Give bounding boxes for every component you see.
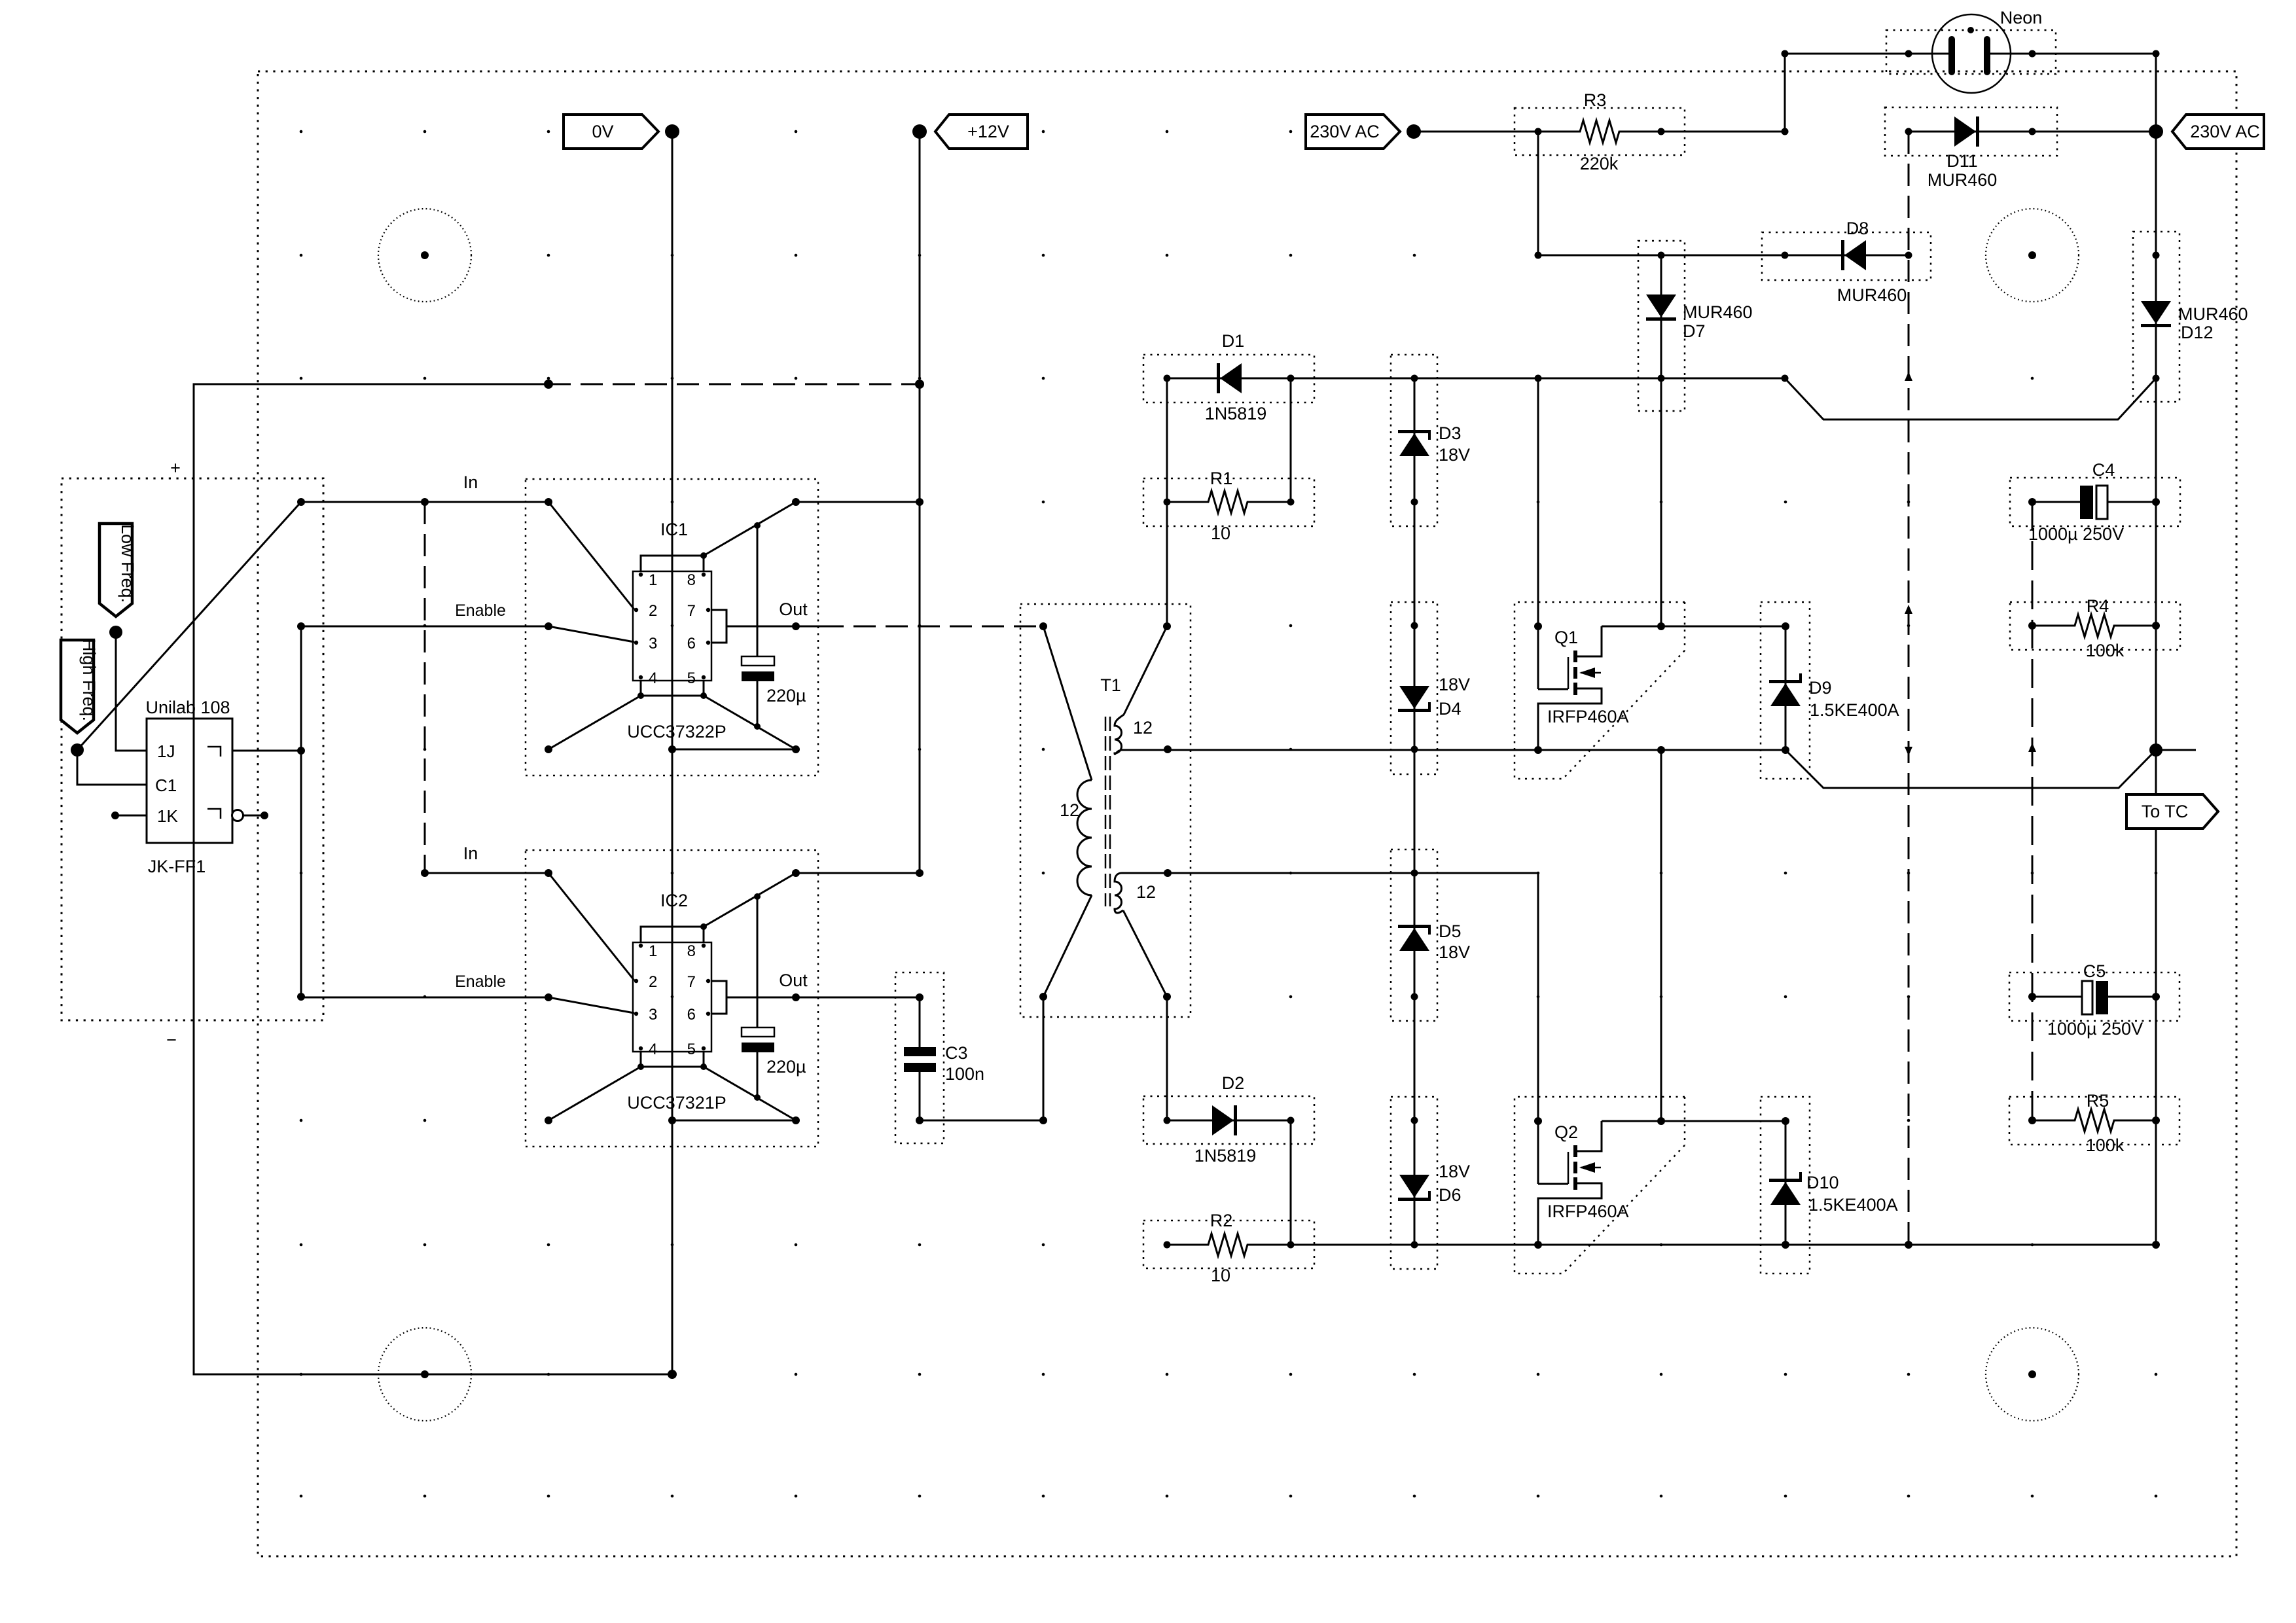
label plus [170, 458, 181, 478]
wire IC2 VDD diagonal to rail [704, 869, 800, 927]
svg-text:D2: D2 [1222, 1073, 1245, 1093]
wire T1 secA top to D1/R1 [1166, 378, 1168, 626]
svg-text:D9: D9 [1809, 678, 1832, 698]
svg-text:220µ: 220µ [766, 1057, 806, 1077]
capacitor C3 100n [895, 972, 984, 1143]
svg-text:Q1: Q1 [1554, 628, 1578, 647]
transistor Q1 IRFP460A [1538, 626, 1629, 749]
svg-text:220µ: 220µ [766, 686, 806, 705]
wire output row To TC [1785, 743, 2196, 788]
mounting hole bottom-right [1986, 1328, 2079, 1421]
T1 secondary B 12t [1115, 869, 1172, 1001]
wire down to 230VAC right [2155, 54, 2157, 132]
wire T1 secA bottom row to Q1 source [1168, 749, 1538, 751]
wire IC2 pin4 diagonal [545, 1067, 641, 1124]
svg-text:4: 4 [649, 669, 657, 687]
wire row390 [1538, 255, 1785, 257]
zener D6 18V [1391, 1097, 1470, 1269]
wire D7 anode to Q1 drain [1660, 378, 1662, 626]
wire Enable net IC2 [301, 972, 552, 1001]
transformer T1 [1020, 604, 1191, 1017]
svg-text:Enable: Enable [455, 972, 506, 991]
wire In net IC2 [425, 844, 552, 877]
wire IC1 pin5 diagonal [704, 696, 796, 749]
flag 0V [564, 115, 658, 149]
svg-text:2: 2 [649, 973, 657, 991]
svg-text:12: 12 [1060, 800, 1079, 820]
svg-text:T1: T1 [1100, 675, 1121, 695]
svg-text:2: 2 [649, 602, 657, 620]
node 0V junction [665, 124, 679, 139]
mounting hole bottom-left [378, 1328, 471, 1421]
wire jog row578 to D12 [1785, 378, 2156, 419]
svg-text:C5: C5 [2083, 961, 2106, 981]
svg-text:Neon: Neon [2000, 8, 2043, 27]
svg-text:In: In [463, 473, 478, 492]
dashed link to +12V rail [548, 380, 924, 389]
wire IC1 pin2 input diagonal [548, 502, 634, 609]
diode D12 MUR460 [2133, 232, 2248, 402]
capacitor IC1 bypass 220u [742, 526, 806, 730]
wire IC1 VDD to +12V rail [796, 498, 924, 506]
svg-text:5: 5 [687, 1041, 696, 1058]
svg-text:C4: C4 [2092, 460, 2115, 480]
svg-text:D10: D10 [1806, 1173, 1839, 1192]
svg-text:10: 10 [1211, 1266, 1230, 1285]
svg-text:UCC37321P: UCC37321P [627, 1093, 726, 1113]
svg-text:D8: D8 [1846, 219, 1869, 238]
wire D12 anode [2153, 132, 2160, 259]
wire Q2 source row start [1291, 1241, 1785, 1249]
svg-text:1N5819: 1N5819 [1205, 404, 1267, 423]
svg-text:100k: 100k [2086, 1135, 2125, 1155]
flip-flop JK-FF1 Unilab 108 [145, 698, 232, 876]
wire T1 secB bottom to D2/R2 [1166, 997, 1168, 1120]
wire High Freq to In diagonal [77, 502, 301, 750]
svg-text:1.5KE400A: 1.5KE400A [1810, 700, 1899, 720]
svg-text:Enable: Enable [455, 601, 506, 620]
dashed net D11 anode vertical [1905, 132, 1912, 1245]
node loop-dash junction [544, 380, 553, 389]
wire right column D12 to C4 [2155, 378, 2157, 502]
svg-text:100k: 100k [2086, 641, 2125, 660]
resistor R5 100k [2009, 1091, 2179, 1155]
dashed In link IC1-IC2 [421, 498, 429, 877]
wire R3 to corner c14 [1661, 128, 1789, 135]
svg-text:R2: R2 [1210, 1211, 1233, 1230]
wire Q1 drain row [1602, 622, 1789, 630]
svg-text:3: 3 [649, 635, 657, 652]
wire IC2 VDD to +12V rail [796, 869, 924, 877]
wire left return loop [194, 384, 672, 1374]
svg-text:18V: 18V [1439, 445, 1470, 465]
svg-text:D3: D3 [1439, 423, 1462, 443]
svg-text:220k: 220k [1580, 154, 1619, 173]
dotted outline Q1 [1515, 602, 1685, 779]
svg-text:IRFP460A: IRFP460A [1547, 707, 1629, 726]
svg-text:8: 8 [687, 942, 696, 960]
pin 1K inverted output [232, 810, 269, 821]
wire IC2 pin3 enable diagonal [548, 997, 634, 1013]
diode D7 MUR460 [1638, 241, 1753, 411]
wire C3 to T1 primary bottom [920, 997, 1047, 1124]
svg-text:3: 3 [649, 1006, 657, 1024]
wire IC2 pins 6+7 output bracket [711, 971, 808, 1014]
node 230V AC left junction [1407, 124, 1421, 139]
wire IC1 pin3 enable diagonal [548, 626, 634, 642]
wire T1 secB top row to Q2 gate [1168, 872, 1538, 874]
svg-text:UCC37322P: UCC37322P [627, 722, 726, 741]
wire corner up to neon row [1782, 50, 1789, 132]
svg-text:Out: Out [779, 971, 808, 990]
tvs D10 1.5KE400A [1761, 1097, 1898, 1274]
zener D4 18V [1391, 602, 1470, 774]
svg-text:18V: 18V [1439, 675, 1470, 694]
node High Freq [71, 743, 84, 757]
svg-text:C3: C3 [945, 1043, 968, 1063]
node Low Freq [109, 626, 122, 639]
zener D3 18V [1391, 355, 1470, 526]
wire Low Freq to 1J [116, 632, 147, 751]
svg-text:MUR460: MUR460 [1837, 285, 1907, 305]
wire C5 to R5 [2155, 997, 2157, 1120]
wire IC2 pin4 ground stub [637, 1052, 707, 1070]
resistor R1 10 [1143, 469, 1314, 543]
svg-text:8: 8 [687, 571, 696, 589]
diode D2 1N5819 [1143, 1073, 1314, 1166]
svg-text:12: 12 [1133, 718, 1153, 738]
wire C4 to R4 [2155, 502, 2157, 626]
wire IC2 Out to C3 [796, 997, 920, 999]
svg-text:MUR460: MUR460 [1683, 302, 1753, 322]
label minus [166, 1030, 177, 1050]
wire enable column [297, 622, 305, 1001]
svg-text:0V: 0V [592, 122, 613, 141]
wire D1-R1 right link [1290, 378, 1292, 502]
svg-text:Out: Out [779, 599, 808, 619]
wire IC1 pins 6+7 output bracket [711, 599, 808, 643]
svg-text:D7: D7 [1683, 321, 1706, 341]
wire +12V rail vertical [919, 132, 921, 873]
svg-text:R4: R4 [2087, 596, 2109, 616]
wire bottom row to right column [1785, 1241, 2160, 1249]
svg-text:10: 10 [1211, 524, 1230, 543]
wire IC2 ground row [668, 1116, 800, 1124]
wire Enable net IC1 [301, 601, 552, 630]
capacitor IC2 bypass 220u [742, 897, 806, 1101]
svg-text:IRFP460A: IRFP460A [1547, 1202, 1629, 1221]
svg-text:In: In [463, 844, 478, 863]
diode D8 MUR460 [1762, 219, 1931, 305]
mounting hole top-right [1986, 209, 2079, 302]
dotted outline Q2 [1515, 1097, 1685, 1274]
svg-text:Q2: Q2 [1554, 1122, 1578, 1142]
svg-text:18V: 18V [1439, 942, 1470, 962]
wire IC1 ground row [668, 745, 800, 753]
svg-text:D5: D5 [1439, 921, 1462, 941]
wire IC2 VDD pins 1+8 [641, 923, 707, 942]
svg-text:D11: D11 [1946, 151, 1978, 171]
node D12 cathode [2153, 375, 2160, 382]
wire IC1 VDD diagonal to rail [704, 498, 800, 556]
flag To TC [2126, 794, 2218, 829]
wire neon row right segment [1990, 50, 2160, 58]
svg-text:7: 7 [687, 602, 696, 620]
svg-text:MUR460: MUR460 [1928, 170, 1998, 190]
tvs D9 1.5KE400A [1761, 602, 1899, 779]
wire R4 to To TC node [2155, 626, 2157, 750]
svg-text:JK-FF1: JK-FF1 [148, 857, 206, 876]
neon lamp [1886, 8, 2056, 93]
mounting hole top-left [378, 209, 471, 302]
wire IC1 VDD pins 1+8 [641, 552, 707, 571]
diode D11 MUR460 [1885, 107, 2156, 190]
svg-text:−: − [166, 1030, 177, 1050]
svg-text:18V: 18V [1439, 1162, 1470, 1181]
svg-text:1000µ 250V: 1000µ 250V [2028, 524, 2124, 544]
svg-text:R3: R3 [1584, 90, 1607, 110]
wire 230VAC to R3 [1414, 131, 1538, 133]
svg-text:1.5KE400A: 1.5KE400A [1808, 1195, 1898, 1215]
wire In net IC1 [297, 473, 552, 506]
svg-text:7: 7 [687, 973, 696, 991]
capacitor C5 1000u 250V [2009, 961, 2179, 1039]
svg-text:5: 5 [687, 669, 696, 687]
svg-text:1: 1 [649, 571, 657, 589]
wire 0V rail vertical [672, 132, 673, 1374]
wire IC2 pin2 input diagonal [548, 873, 634, 980]
svg-text:+: + [170, 458, 181, 478]
svg-text:Low Freq.: Low Freq. [118, 524, 137, 603]
wire Q2 drain row [1602, 1117, 1789, 1125]
wire gate row1 578 [1167, 375, 1789, 382]
resistor R3 [1515, 90, 1685, 173]
wire To TC node to C5 [2155, 750, 2157, 997]
wire neon row left segment [1785, 53, 1949, 55]
node 230V AC right junction [2149, 124, 2163, 139]
wire R3 branch down [1535, 132, 1542, 259]
svg-text:230V AC: 230V AC [1310, 122, 1380, 141]
dashed net C4-R4-C5-R5 left column [2028, 502, 2036, 1120]
svg-text:D6: D6 [1439, 1185, 1462, 1205]
wire R5 to bottom row [2155, 1120, 2157, 1245]
svg-text:1: 1 [649, 942, 657, 960]
svg-text:IC1: IC1 [660, 520, 688, 539]
node +12V junction [912, 124, 927, 139]
wire FF Q output [232, 747, 305, 755]
resistor R4 100k [2010, 596, 2180, 660]
node 0V rail bottom [421, 1370, 677, 1379]
pin 1K input stub [111, 811, 147, 819]
svg-text:1K: 1K [157, 806, 178, 826]
svg-text:6: 6 [687, 1006, 696, 1024]
wire IC1 pin4 diagonal [545, 696, 641, 753]
transistor Q2 IRFP460A [1538, 1121, 1629, 1244]
wire D2-R2 right link [1290, 1120, 1292, 1245]
T1 secondary A 12t [1115, 622, 1172, 754]
svg-text:12: 12 [1136, 882, 1156, 902]
wire Q1 gate column [1534, 378, 1568, 689]
wire Q2 gate column [1534, 873, 1568, 1184]
flag 230V AC right [2172, 115, 2264, 149]
capacitor C4 1000u 250V [2010, 460, 2180, 544]
svg-text:R5: R5 [2087, 1091, 2109, 1111]
svg-text:Unilab 108: Unilab 108 [145, 698, 230, 717]
flag 230V AC left [1306, 115, 1400, 149]
svg-text:1N5819: 1N5819 [1194, 1146, 1257, 1166]
wire IC1 pin4 ground stub [637, 681, 707, 699]
svg-text:6: 6 [687, 635, 696, 652]
T1 core [1105, 717, 1110, 906]
svg-text:230V AC: 230V AC [2190, 122, 2260, 141]
svg-text:4: 4 [649, 1041, 657, 1058]
svg-text:High Freq.: High Freq. [79, 639, 99, 721]
zener column D3-D6 [1414, 378, 1416, 1245]
svg-text:IC2: IC2 [660, 891, 688, 910]
flag High Freq [61, 639, 99, 733]
flag Low Freq [99, 524, 137, 616]
wire Q1 source row [1534, 746, 1785, 754]
wire half-bridge midpoint link [1660, 750, 1662, 1120]
svg-text:To TC: To TC [2142, 802, 2189, 821]
svg-text:D1: D1 [1222, 331, 1245, 351]
svg-text:R1: R1 [1210, 469, 1233, 488]
svg-text:1000µ 250V: 1000µ 250V [2047, 1019, 2143, 1039]
diode D1 1N5819 [1143, 331, 1314, 423]
resistor R2 10 [1143, 1211, 1314, 1285]
zener D5 18V [1391, 849, 1470, 1021]
svg-text:1J: 1J [157, 741, 175, 761]
IC IC1 UCC37322P body [627, 520, 726, 741]
svg-text:C1: C1 [155, 776, 177, 795]
svg-text:+12V: +12V [967, 122, 1009, 141]
wire High Freq to C1 [77, 750, 147, 785]
IC IC2 UCC37321P body [627, 891, 726, 1113]
svg-text:100n: 100n [945, 1064, 984, 1084]
svg-text:MUR460: MUR460 [2178, 304, 2248, 324]
svg-text:D12: D12 [2181, 323, 2214, 342]
wire IC1 Out dashed to T1 [796, 626, 1043, 628]
flag +12V [935, 115, 1028, 149]
svg-text:D4: D4 [1439, 699, 1462, 719]
T1 primary winding 12t [1039, 622, 1092, 1001]
wire IC2 pin5 diagonal [704, 1067, 796, 1120]
